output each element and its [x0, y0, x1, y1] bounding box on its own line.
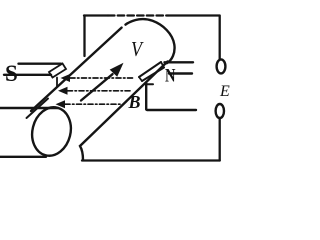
wire: circuit box bottom edge — [82, 159, 220, 161]
cylinder top end circle — [126, 19, 175, 63]
svg-text:E: E — [219, 83, 230, 100]
field line B1 dash-dot — [70, 77, 135, 79]
magnet S pole lower edge through S — [4, 74, 51, 76]
magnet S pole end face lower stub — [56, 78, 58, 87]
field arrowhead 1 — [61, 74, 71, 82]
rail upper-left horizontal line — [0, 107, 58, 109]
velocity arrowhead — [110, 63, 124, 77]
field arrowhead 3 — [56, 100, 66, 108]
field line B2 dash-dot — [68, 90, 132, 92]
magnet S pole end face — [49, 64, 66, 78]
cylinder upper-left edge sketch double stroke near ellipse — [27, 99, 49, 119]
svg-text:B: B — [128, 92, 141, 112]
wire: circuit box right edge upper segment — [219, 16, 221, 60]
magnet N pole left cap — [139, 77, 142, 81]
wire: circuit box top edge right part — [168, 14, 220, 16]
magnet N pole face upper slant — [139, 62, 161, 77]
field line B3 dash-dot — [65, 103, 122, 105]
svg-text:N: N — [165, 65, 176, 86]
magnet N pole face lower slant — [142, 68, 164, 82]
magnet N pole face bottom stub — [146, 83, 153, 85]
wire: circuit box right edge lower segment — [219, 119, 221, 161]
wire: circuit box top edge — [84, 14, 108, 16]
wire: circuit box top edge dashed middle part — [108, 14, 168, 16]
svg-text:S: S — [5, 61, 18, 86]
velocity arrow shaft — [81, 74, 113, 100]
wire: circuit box left edge (upper visible part) — [83, 16, 85, 57]
magnet N pole mid edge — [169, 72, 192, 74]
terminal upper circle — [217, 59, 226, 73]
cylinder bottom end ellipse — [27, 103, 76, 160]
svg-text:V: V — [131, 37, 144, 61]
cylinder upper-left edge — [31, 28, 122, 111]
field arrowhead 2 — [58, 87, 68, 95]
terminal lower circle — [216, 104, 224, 118]
magnet S pole top edge — [19, 63, 62, 65]
magnet N pole face right cap — [161, 62, 164, 68]
rail lower-left horizontal line — [0, 156, 46, 158]
rail right horizontal line under N pole — [147, 109, 196, 111]
magnet N pole left vertical edge — [145, 83, 147, 110]
magnet N pole top edge — [165, 61, 194, 63]
cylinder lower-right edge — [80, 62, 168, 161]
